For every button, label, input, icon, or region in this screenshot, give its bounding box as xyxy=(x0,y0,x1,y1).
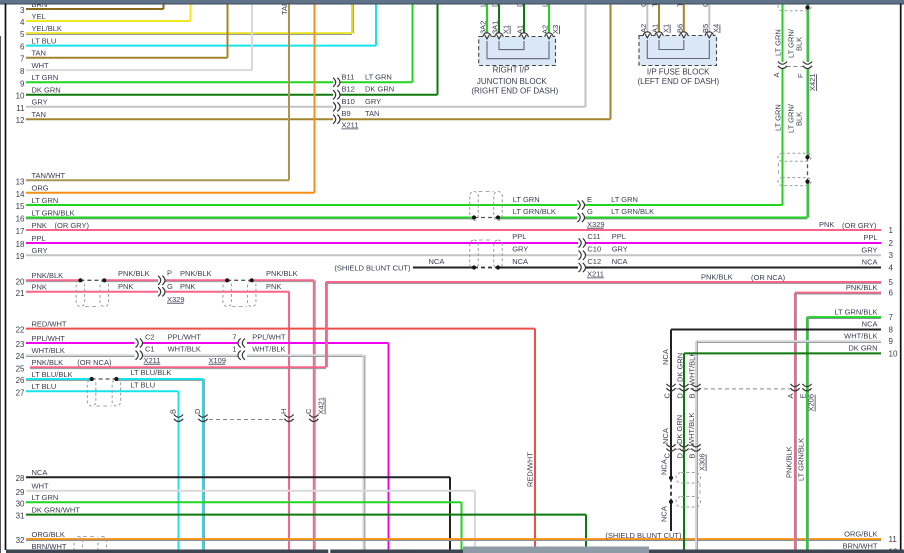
svg-text:NCA: NCA xyxy=(661,428,670,444)
svg-text:LT GRN: LT GRN xyxy=(32,73,59,82)
svg-text:LT GRN/BLK: LT GRN/BLK xyxy=(834,307,877,316)
svg-text:(RIGHT END OF DASH): (RIGHT END OF DASH) xyxy=(471,87,558,96)
svg-text:X211: X211 xyxy=(342,121,359,130)
svg-text:A2: A2 xyxy=(541,25,550,34)
svg-text:B: B xyxy=(169,409,178,414)
svg-text:32: 32 xyxy=(16,536,25,545)
svg-text:TAN: TAN xyxy=(32,49,46,58)
svg-text:WHT/BLK: WHT/BLK xyxy=(168,345,201,354)
svg-text:LT GRN: LT GRN xyxy=(513,195,540,204)
svg-text:B9: B9 xyxy=(342,109,351,118)
svg-text:D: D xyxy=(676,453,685,459)
svg-text:LT BLU: LT BLU xyxy=(32,382,57,391)
svg-text:PNK/BLK: PNK/BLK xyxy=(701,273,733,282)
svg-text:LT GRN: LT GRN xyxy=(32,196,59,205)
svg-text:PNK/BLK: PNK/BLK xyxy=(785,446,794,478)
svg-text:LT BLU: LT BLU xyxy=(32,36,57,45)
svg-text:GRY: GRY xyxy=(512,245,528,254)
svg-text:WHT: WHT xyxy=(32,61,49,70)
svg-text:LT GRN: LT GRN xyxy=(32,493,59,502)
svg-text:ORG: ORG xyxy=(32,184,49,193)
svg-text:NCA: NCA xyxy=(661,349,670,365)
svg-text:NCA: NCA xyxy=(660,459,669,475)
svg-text:PNK: PNK xyxy=(118,282,133,291)
svg-text:X421: X421 xyxy=(808,73,817,91)
svg-text:WHT/BLK: WHT/BLK xyxy=(844,331,877,340)
svg-text:GRY: GRY xyxy=(32,246,48,255)
svg-text:4: 4 xyxy=(20,18,25,27)
svg-text:LT GRN: LT GRN xyxy=(774,29,783,56)
svg-text:ORG/BLK: ORG/BLK xyxy=(844,529,877,538)
svg-text:11: 11 xyxy=(889,535,898,544)
svg-text:X3: X3 xyxy=(551,25,560,34)
svg-text:X206: X206 xyxy=(807,394,816,412)
svg-text:PNK: PNK xyxy=(180,282,195,291)
svg-text:8: 8 xyxy=(889,326,894,335)
svg-text:9: 9 xyxy=(889,337,894,346)
svg-text:28: 28 xyxy=(16,474,25,483)
svg-text:X329: X329 xyxy=(587,220,605,229)
svg-text:RED/WHT: RED/WHT xyxy=(32,319,67,328)
svg-text:19: 19 xyxy=(16,252,25,261)
svg-text:18: 18 xyxy=(16,240,25,249)
svg-text:WHT/BLK: WHT/BLK xyxy=(32,346,65,355)
svg-text:G: G xyxy=(167,282,173,291)
svg-text:X211: X211 xyxy=(144,356,161,365)
svg-text:14: 14 xyxy=(16,190,25,199)
svg-text:C: C xyxy=(663,453,672,459)
svg-text:(LEFT END OF DASH): (LEFT END OF DASH) xyxy=(637,77,719,86)
svg-text:X421: X421 xyxy=(317,397,326,415)
svg-text:A: A xyxy=(786,393,795,398)
svg-text:PNK: PNK xyxy=(819,220,834,229)
svg-text:DK GRN: DK GRN xyxy=(675,415,684,444)
svg-text:B: B xyxy=(688,393,697,398)
svg-text:PPL/WHT: PPL/WHT xyxy=(32,334,66,343)
svg-text:3A2: 3A2 xyxy=(479,21,488,34)
svg-text:X4: X4 xyxy=(711,24,720,33)
svg-text:5: 5 xyxy=(20,30,25,39)
svg-text:LT GRN/BLK: LT GRN/BLK xyxy=(797,438,806,481)
svg-text:(OR NCA): (OR NCA) xyxy=(77,358,112,367)
svg-text:7: 7 xyxy=(232,332,236,341)
svg-text:GRY: GRY xyxy=(32,98,48,107)
svg-text:X1: X1 xyxy=(502,25,511,34)
svg-text:X329: X329 xyxy=(167,295,185,304)
svg-text:10: 10 xyxy=(16,92,25,101)
svg-text:C10: C10 xyxy=(587,245,601,254)
svg-text:DK GRN: DK GRN xyxy=(676,353,685,382)
svg-text:PNK: PNK xyxy=(266,282,281,291)
svg-text:B6: B6 xyxy=(675,24,684,33)
svg-text:JUNCTION BLOCK: JUNCTION BLOCK xyxy=(477,77,547,86)
svg-text:B: B xyxy=(688,453,697,458)
svg-text:X109: X109 xyxy=(209,356,227,365)
svg-text:PNK/BLK: PNK/BLK xyxy=(180,269,212,278)
svg-text:WHT/BLK: WHT/BLK xyxy=(687,413,696,446)
svg-text:BLK: BLK xyxy=(795,112,804,126)
svg-text:PPL/WHT: PPL/WHT xyxy=(168,332,202,341)
svg-text:A1: A1 xyxy=(651,24,660,33)
svg-text:RED/WHT: RED/WHT xyxy=(526,452,535,487)
svg-text:C: C xyxy=(663,393,672,399)
svg-text:21: 21 xyxy=(16,289,25,298)
svg-text:5: 5 xyxy=(889,278,894,287)
svg-text:2: 2 xyxy=(889,239,894,248)
svg-text:11: 11 xyxy=(16,104,25,113)
svg-text:LT GRN: LT GRN xyxy=(365,72,392,81)
svg-text:DK GRN: DK GRN xyxy=(32,86,61,95)
svg-text:LT GRN: LT GRN xyxy=(611,195,638,204)
svg-text:6: 6 xyxy=(20,43,25,52)
svg-text:LT GRN: LT GRN xyxy=(774,104,783,131)
svg-text:A: A xyxy=(772,72,781,77)
svg-text:(SHIELD BLUNT CUT): (SHIELD BLUNT CUT) xyxy=(605,531,682,540)
svg-text:22: 22 xyxy=(16,326,25,335)
svg-text:13: 13 xyxy=(16,177,25,186)
svg-text:(SHIELD BLUNT CUT): (SHIELD BLUNT CUT) xyxy=(334,263,411,272)
svg-text:PNK/BLK: PNK/BLK xyxy=(266,269,298,278)
svg-text:3: 3 xyxy=(20,6,25,15)
svg-text:PNK/BLK: PNK/BLK xyxy=(846,283,878,292)
svg-text:PPL: PPL xyxy=(612,232,626,241)
svg-text:15: 15 xyxy=(16,202,25,211)
svg-text:PPL/WHT: PPL/WHT xyxy=(252,332,286,341)
svg-text:H: H xyxy=(279,409,288,414)
svg-text:NCA: NCA xyxy=(512,257,528,266)
svg-text:PNK/BLK: PNK/BLK xyxy=(118,269,150,278)
svg-text:YEL/BLK: YEL/BLK xyxy=(32,24,62,33)
svg-text:DK GRN/WHT: DK GRN/WHT xyxy=(32,505,81,514)
svg-text:E: E xyxy=(587,195,592,204)
svg-text:NCA: NCA xyxy=(429,257,445,266)
svg-text:LT GRN/BLK: LT GRN/BLK xyxy=(32,208,75,217)
svg-text:7: 7 xyxy=(889,313,894,322)
svg-text:24: 24 xyxy=(16,352,25,361)
svg-text:17: 17 xyxy=(16,227,25,236)
svg-text:I/P FUSE BLOCK: I/P FUSE BLOCK xyxy=(647,68,710,77)
svg-text:DK GRN: DK GRN xyxy=(365,85,394,94)
svg-text:LT GRN/BLK: LT GRN/BLK xyxy=(513,207,556,216)
svg-text:LT BLU/BLK: LT BLU/BLK xyxy=(130,368,171,377)
svg-text:NCA: NCA xyxy=(32,468,48,477)
svg-text:12: 12 xyxy=(16,116,25,125)
svg-text:BLK: BLK xyxy=(795,37,804,51)
svg-text:20: 20 xyxy=(16,277,25,286)
svg-text:10: 10 xyxy=(889,349,898,358)
svg-text:16: 16 xyxy=(16,215,25,224)
svg-text:C: C xyxy=(304,408,313,414)
svg-text:PPL: PPL xyxy=(32,234,46,243)
svg-text:PNK: PNK xyxy=(32,283,47,292)
svg-text:WHT: WHT xyxy=(32,482,49,491)
svg-text:D: D xyxy=(193,408,202,414)
svg-text:6: 6 xyxy=(889,289,894,298)
svg-text:X1: X1 xyxy=(662,24,671,33)
svg-text:GRY: GRY xyxy=(365,97,381,106)
svg-text:LT BLU: LT BLU xyxy=(130,381,155,390)
svg-text:GRY: GRY xyxy=(861,245,877,254)
svg-text:(OR GRY): (OR GRY) xyxy=(55,221,90,230)
svg-text:PNK: PNK xyxy=(32,221,47,230)
svg-text:26: 26 xyxy=(16,376,25,385)
svg-text:C12: C12 xyxy=(587,257,601,266)
svg-text:PPL: PPL xyxy=(863,233,877,242)
svg-text:3A1: 3A1 xyxy=(491,21,500,34)
svg-text:TAN/WHT: TAN/WHT xyxy=(32,171,66,180)
svg-text:YEL: YEL xyxy=(32,12,46,21)
svg-text:NCA: NCA xyxy=(612,257,628,266)
svg-text:1: 1 xyxy=(232,345,236,354)
svg-text:PNK/BLK: PNK/BLK xyxy=(32,271,64,280)
svg-text:23: 23 xyxy=(16,340,25,349)
svg-text:C11: C11 xyxy=(587,232,600,241)
svg-text:A1: A1 xyxy=(516,25,525,34)
svg-text:(OR NCA): (OR NCA) xyxy=(751,273,786,282)
svg-text:B5: B5 xyxy=(701,24,710,33)
svg-text:29: 29 xyxy=(16,488,25,497)
svg-text:X211: X211 xyxy=(587,270,604,279)
svg-text:NCA: NCA xyxy=(862,320,878,329)
svg-text:B12: B12 xyxy=(342,85,355,94)
svg-text:X306: X306 xyxy=(698,453,707,471)
svg-text:3: 3 xyxy=(889,251,894,260)
svg-text:30: 30 xyxy=(16,499,25,508)
svg-text:(OR GRY): (OR GRY) xyxy=(842,221,877,230)
svg-text:P: P xyxy=(167,269,172,278)
svg-text:D: D xyxy=(676,393,685,399)
svg-text:LT GRN/BLK: LT GRN/BLK xyxy=(611,207,654,216)
svg-text:RIGHT I/P: RIGHT I/P xyxy=(493,66,530,75)
svg-text:8: 8 xyxy=(20,67,25,76)
svg-text:4: 4 xyxy=(889,264,894,273)
svg-text:TAN: TAN xyxy=(32,110,46,119)
svg-text:DK GRN: DK GRN xyxy=(848,344,877,353)
svg-text:WHT/BLK: WHT/BLK xyxy=(252,345,285,354)
svg-text:PPL: PPL xyxy=(512,232,526,241)
svg-text:GRY: GRY xyxy=(612,245,628,254)
svg-text:25: 25 xyxy=(16,364,25,373)
svg-text:27: 27 xyxy=(16,388,25,397)
svg-text:B10: B10 xyxy=(342,97,355,106)
svg-text:PNK/BLK: PNK/BLK xyxy=(32,358,64,367)
svg-text:NCA: NCA xyxy=(660,506,669,522)
svg-text:31: 31 xyxy=(16,512,25,521)
svg-text:F: F xyxy=(796,73,805,78)
svg-text:C2: C2 xyxy=(145,332,155,341)
svg-text:WHT/BLK: WHT/BLK xyxy=(688,352,697,385)
svg-text:NCA: NCA xyxy=(862,258,878,267)
svg-text:7: 7 xyxy=(20,55,25,64)
svg-text:BRN/WHT: BRN/WHT xyxy=(843,542,878,551)
svg-text:9: 9 xyxy=(20,79,25,88)
svg-text:G: G xyxy=(587,207,593,216)
svg-text:ORG/BLK: ORG/BLK xyxy=(32,530,65,539)
svg-text:C1: C1 xyxy=(145,345,155,354)
svg-text:B11: B11 xyxy=(342,72,355,81)
svg-text:LT BLU/BLK: LT BLU/BLK xyxy=(32,370,73,379)
svg-text:1: 1 xyxy=(889,226,894,235)
svg-text:TAN: TAN xyxy=(365,109,379,118)
svg-text:A2: A2 xyxy=(639,24,648,33)
